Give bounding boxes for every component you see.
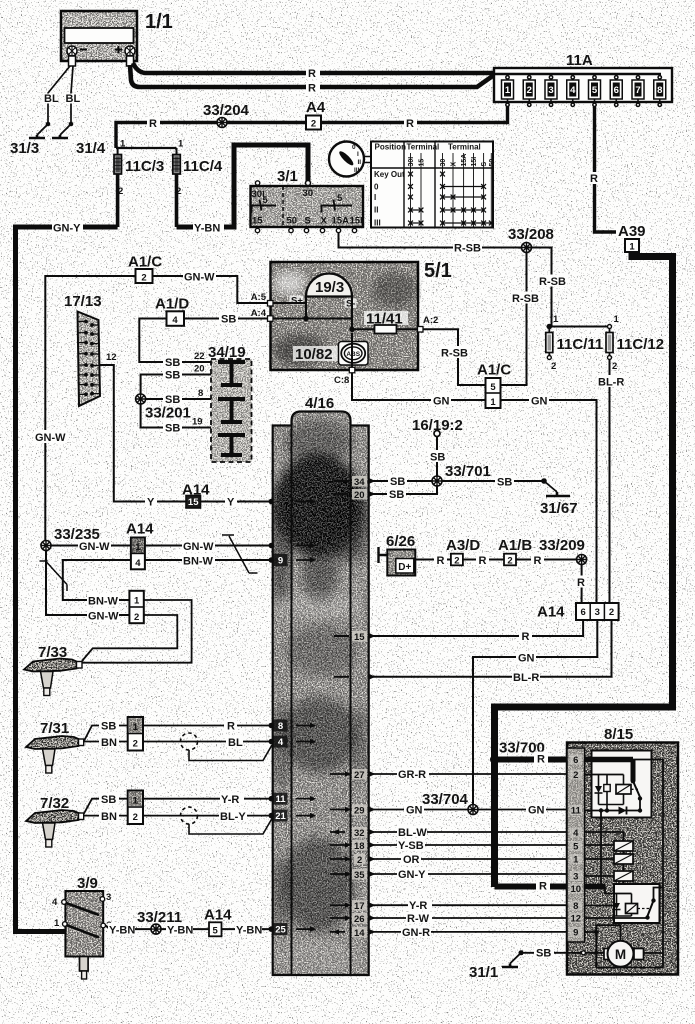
svg-text:S: S: [305, 216, 311, 227]
svg-text:10: 10: [571, 884, 582, 895]
svg-text:1: 1: [133, 796, 139, 807]
svg-text:II: II: [374, 206, 378, 215]
svg-text:12: 12: [106, 352, 117, 363]
svg-text:11A: 11A: [566, 52, 593, 69]
svg-text:7: 7: [635, 85, 640, 96]
8/15 relay 1: [585, 751, 652, 818]
svg-text:1: 1: [134, 596, 140, 607]
svg-text:15: 15: [252, 216, 263, 227]
wire GN-W A1/C2 to A:5: [153, 276, 268, 303]
svg-text:31/67: 31/67: [540, 500, 578, 517]
svg-text:2: 2: [612, 361, 617, 372]
svg-text:20: 20: [194, 364, 205, 375]
svg-text:5: 5: [573, 842, 579, 853]
svg-text:A1/C: A1/C: [128, 254, 162, 271]
svg-text:SB: SB: [536, 948, 551, 960]
svg-text:8: 8: [657, 85, 662, 96]
wire BN 7/32: [84, 815, 128, 817]
svg-text:4/16: 4/16: [305, 395, 334, 412]
svg-text:19/3: 19/3: [315, 279, 344, 296]
svg-text:34: 34: [354, 477, 365, 488]
svg-text:15: 15: [419, 159, 426, 167]
wire BL battery negative to 31/3: [48, 66, 70, 124]
fuse 11C/3: [114, 139, 177, 228]
wheel sensor 7/33: [24, 644, 82, 696]
svg-text:A3/D: A3/D: [446, 537, 480, 554]
pin C:8: [351, 333, 353, 370]
connector A14 pins 6 3 2: [537, 603, 619, 621]
svg-text:GN-W: GN-W: [183, 541, 214, 553]
svg-text:R: R: [227, 721, 235, 733]
svg-text:BL: BL: [66, 93, 81, 105]
svg-text:BL-R: BL-R: [513, 672, 539, 684]
svg-text:30I: 30I: [408, 157, 415, 167]
svg-text:GR-R: GR-R: [398, 769, 426, 781]
control module 4/16: [270, 395, 372, 978]
svg-text:15A: 15A: [332, 216, 350, 227]
svg-text:Key Out: Key Out: [374, 170, 405, 179]
svg-text:11: 11: [571, 806, 582, 817]
svg-text:Y: Y: [227, 497, 235, 509]
svg-text:R: R: [149, 118, 157, 130]
wire GN-R pin 14: [371, 931, 567, 933]
svg-text:GN-Y: GN-Y: [398, 869, 426, 881]
wire BL-R 11C/12 down to A14: [609, 360, 611, 604]
wire BN 7/31: [84, 741, 128, 743]
svg-text:Y-BN: Y-BN: [236, 924, 262, 936]
svg-text:22: 22: [194, 351, 205, 362]
svg-text:1: 1: [120, 139, 126, 150]
wire BN-W A14 cell4 to 7/33 connector: [63, 560, 131, 600]
wire R-SB A:2 to A1/C pin 5: [423, 329, 486, 385]
svg-text:BN: BN: [101, 811, 117, 823]
svg-text:SB: SB: [165, 394, 180, 406]
4/16 pin 20 wire SB: [371, 487, 437, 495]
splice 33/701: [432, 476, 442, 486]
wire SB 34/19 pin 20 chain: [141, 375, 211, 428]
wire R fuse1 to 33/204 and fuses 11C: [116, 107, 508, 149]
svg-text:15I: 15I: [350, 216, 363, 227]
svg-text:GN: GN: [531, 396, 548, 408]
pin A:4: [273, 318, 307, 320]
thick wire R 33/700 to pin 6 of 8/15: [495, 757, 568, 763]
svg-text:6: 6: [580, 607, 585, 618]
svg-text:R: R: [479, 555, 487, 567]
svg-text:15: 15: [188, 497, 199, 508]
svg-text:2: 2: [527, 85, 532, 96]
svg-text:Y-R: Y-R: [409, 900, 427, 912]
wire SB 34/19 pin 19 label: [163, 421, 182, 433]
abs unit 10/82: [293, 342, 368, 366]
svg-text:R: R: [539, 881, 547, 893]
svg-text:11C/11: 11C/11: [557, 336, 604, 353]
svg-text:4: 4: [570, 85, 576, 96]
svg-text:3/1: 3/1: [277, 168, 298, 185]
svg-text:27: 27: [354, 770, 365, 781]
wire Y-BN 3/9 to 33/211: [106, 926, 157, 930]
connector A1/C pins 5 1: [477, 362, 511, 409]
wire R-SB splice down to A1/C pin 5: [501, 253, 527, 386]
wire BL-R A14 cell2 to 4/16: [371, 620, 612, 677]
8/15 motor: [596, 925, 663, 967]
ignition key symbol: [329, 142, 371, 177]
wire Y-BN to ignition 30: [177, 145, 309, 227]
svg-text:20: 20: [354, 490, 365, 501]
svg-text:4: 4: [573, 828, 579, 839]
svg-text:BN-W: BN-W: [183, 556, 214, 568]
8/15 pin 12 wire: [585, 917, 648, 919]
svg-text:33/704: 33/704: [422, 791, 469, 808]
svg-text:15I: 15I: [471, 157, 478, 167]
svg-text:14: 14: [354, 928, 365, 939]
wire Y-BN 33/211 to A14: [161, 928, 209, 930]
pin A:5: [273, 302, 307, 304]
splice 33/204: [217, 118, 227, 128]
svg-text:A4: A4: [306, 99, 326, 116]
svg-text:9: 9: [278, 556, 283, 567]
wire R fuse5 to A39: [595, 107, 633, 240]
svg-text:Terminal: Terminal: [407, 143, 440, 152]
wheel sensor 7/32: [26, 795, 84, 847]
svg-text:Y-R: Y-R: [221, 794, 239, 806]
wire R-SB from 15A to splice 33/208: [339, 233, 527, 248]
8/15 resistor chain: [585, 832, 633, 894]
connector 7/31 pins 1 2: [128, 717, 143, 751]
wheel sensor 7/33 connector box: [129, 591, 143, 623]
svg-text:31/4: 31/4: [76, 140, 106, 157]
svg-text:GN-R: GN-R: [402, 927, 430, 939]
svg-text:R: R: [308, 68, 316, 80]
wire Y A14 to 4/16: [201, 501, 272, 503]
wire GN-W A14 to 4/16: [145, 545, 271, 547]
svg-text:5: 5: [213, 926, 219, 937]
svg-text:R-SB: R-SB: [454, 243, 481, 255]
svg-text:11C/3: 11C/3: [125, 158, 164, 175]
svg-text:Y-BN: Y-BN: [167, 924, 193, 936]
svg-text:8: 8: [573, 901, 578, 912]
svg-text:2: 2: [357, 855, 362, 866]
ground 31/4: [52, 124, 71, 138]
resistor 11/41: [349, 311, 418, 334]
svg-text:GN: GN: [406, 805, 423, 817]
8/15 relay 2: [585, 884, 663, 923]
svg-text:BL-Y: BL-Y: [220, 811, 246, 823]
wire SB 7/32: [84, 799, 128, 814]
svg-text:15: 15: [354, 632, 365, 643]
svg-text:GN-W: GN-W: [184, 272, 215, 284]
svg-text:1: 1: [614, 314, 620, 325]
wire GN pin 29 via 33/704: [371, 809, 567, 811]
wire R 6/26 to 33/209: [415, 559, 581, 561]
wire GN A1/C to A14 cell 3: [501, 400, 597, 603]
fuses 11A 1-8: [502, 74, 666, 107]
thick wire R from A39 down right edge to 33/700: [495, 252, 673, 887]
svg-text:A:4: A:4: [251, 308, 267, 319]
svg-text:I: I: [357, 151, 359, 158]
8/15 pin strip: [567, 748, 585, 942]
wire Y-BN A14 to 4/16 pin 25: [222, 928, 272, 930]
svg-text:1: 1: [573, 855, 579, 866]
wire GN A14 cell3 down to 33/704: [473, 620, 597, 810]
svg-text:5: 5: [337, 193, 343, 204]
wire GN-W A1/C2 down to 33/235: [45, 276, 135, 546]
svg-text:R: R: [537, 754, 545, 766]
svg-text:9: 9: [573, 928, 578, 939]
svg-text:17: 17: [354, 901, 365, 912]
wire OR pin 2: [371, 858, 567, 860]
svg-text:Terminal: Terminal: [448, 143, 481, 152]
svg-text:A:2: A:2: [423, 315, 438, 326]
pin A:2: [418, 327, 424, 333]
svg-text:Y: Y: [147, 497, 155, 509]
wire 7/33 connector cell2 loop: [82, 615, 177, 661]
svg-text:3: 3: [595, 607, 600, 618]
fuse 11C/4: [173, 139, 223, 228]
wire GR-R pin 27: [371, 773, 567, 775]
svg-text:4: 4: [278, 737, 284, 748]
svg-text:M: M: [615, 947, 626, 962]
svg-text:BN: BN: [101, 737, 117, 749]
svg-text:5/1: 5/1: [424, 260, 452, 282]
svg-text:BN-W: BN-W: [88, 596, 119, 608]
svg-text:X: X: [451, 162, 458, 167]
svg-text:OR: OR: [403, 854, 420, 866]
wire SB 34/19 pin 8: [146, 398, 211, 400]
wire BL battery negative to 31/4: [71, 66, 73, 124]
wire R 33/209 down to A14 cell 6: [581, 565, 583, 604]
wire BN-W A14 cell4 to 4/16 pin 9: [145, 559, 271, 561]
svg-text:III: III: [374, 219, 381, 228]
svg-text:30: 30: [303, 188, 314, 199]
wheel sensor 7/31: [26, 720, 84, 773]
8/15 pin 11 wire with diode: [585, 810, 640, 812]
connector A14 pins 1 4: [126, 521, 154, 570]
svg-text:SB: SB: [101, 721, 116, 733]
svg-text:SB: SB: [390, 476, 405, 488]
svg-text:31/1: 31/1: [469, 964, 498, 981]
svg-text:3: 3: [573, 872, 578, 883]
svg-text:SB: SB: [165, 370, 180, 382]
svg-text:II: II: [358, 159, 362, 166]
svg-text:33/208: 33/208: [508, 226, 554, 243]
splice 33/201: [136, 394, 146, 404]
svg-text:1/1: 1/1: [145, 11, 173, 33]
svg-text:5: 5: [592, 85, 598, 96]
svg-text:R: R: [437, 555, 445, 567]
ignition switch 3/1: [251, 168, 364, 233]
svg-text:GN: GN: [433, 396, 450, 408]
svg-text:1: 1: [135, 542, 141, 553]
svg-text:R: R: [522, 631, 530, 643]
svg-text:3: 3: [548, 85, 553, 96]
wire R-SB splice to 11C/11: [527, 248, 552, 327]
wire GN-W 33/235 down to 7/33 connector: [46, 551, 129, 616]
wire R 7/31 to 4/16 pin 8: [143, 725, 271, 727]
svg-text:A:5: A:5: [251, 292, 267, 303]
svg-text:2: 2: [551, 361, 556, 372]
svg-text:D+: D+: [398, 562, 411, 573]
svg-text:R-SB: R-SB: [441, 348, 468, 360]
svg-text:2: 2: [454, 556, 459, 567]
splice 33/208: [522, 243, 532, 253]
wire R-W pin 26: [371, 917, 567, 919]
svg-text:1: 1: [505, 85, 511, 96]
svg-text:0: 0: [374, 183, 379, 192]
wire R A14 cell6 to 4/16 pin 15: [371, 620, 583, 636]
svg-text:4: 4: [52, 897, 58, 908]
internal wiring 5/1: [306, 297, 352, 330]
thick wire R 33/700 to pin 10 of 8/15: [495, 884, 568, 890]
svg-text:21: 21: [275, 811, 286, 822]
svg-text:A39: A39: [618, 223, 646, 240]
svg-text:35: 35: [354, 870, 365, 881]
svg-text:C:8: C:8: [334, 375, 349, 386]
alternator 6/26: [379, 533, 416, 576]
svg-text:5: 5: [490, 382, 496, 393]
svg-text:A1/D: A1/D: [155, 296, 189, 313]
svg-text:7/31: 7/31: [40, 720, 69, 737]
connector A39 pin 1: [616, 224, 649, 238]
wire SB 7/31: [84, 726, 128, 742]
svg-text:R: R: [577, 577, 585, 589]
wire Y 17/13 pin 12 to A14: [100, 365, 186, 502]
svg-text:GN: GN: [518, 653, 535, 665]
svg-text:BL-W: BL-W: [398, 827, 427, 839]
wire R battery positive bottom: [130, 65, 494, 87]
ground 31/67: [541, 478, 547, 484]
4/16 pin 34 wire SB to 31/67: [334, 480, 544, 482]
svg-text:2: 2: [573, 770, 578, 781]
ground 31/3: [29, 124, 48, 138]
svg-text:1: 1: [490, 397, 496, 408]
svg-text:8: 8: [198, 388, 203, 399]
svg-text:30: 30: [440, 159, 447, 167]
svg-text:2: 2: [133, 739, 138, 750]
svg-text:Position: Position: [375, 143, 407, 152]
svg-text:R-W: R-W: [407, 913, 430, 925]
svg-text:A14: A14: [126, 521, 154, 538]
svg-text:S+: S+: [291, 296, 303, 307]
wire SB A1/D to A:4: [184, 318, 268, 320]
resistor pack 34/19: [208, 344, 252, 462]
svg-text:1: 1: [553, 314, 559, 325]
svg-text:GN-Y: GN-Y: [53, 223, 81, 235]
wire BL-W pin 32: [371, 831, 567, 833]
wire 7/33 connector cell1 loop: [82, 600, 192, 663]
svg-text:BL: BL: [228, 737, 243, 749]
connector 17/13: [64, 293, 117, 406]
svg-text:6: 6: [614, 85, 619, 96]
svg-text:10/82: 10/82: [295, 346, 333, 363]
hydraulic modulator 8/15: [567, 726, 678, 975]
svg-text:R: R: [406, 118, 414, 130]
ignition position table: [371, 142, 496, 228]
svg-text:SB: SB: [430, 452, 445, 464]
svg-text:11C/4: 11C/4: [183, 158, 223, 175]
svg-text:4: 4: [135, 558, 141, 569]
svg-text:1: 1: [178, 139, 184, 150]
wire Y-R 7/32 to 4/16 pin 11: [143, 798, 271, 800]
wire Y-SB pin 18: [371, 844, 567, 846]
svg-text:5: 5: [263, 195, 269, 206]
4/16 internal pin arrows: [296, 481, 348, 932]
svg-text:A1/C: A1/C: [477, 362, 511, 379]
svg-text:25: 25: [275, 925, 286, 936]
svg-text:A14: A14: [204, 907, 232, 924]
sensor reference 19/3: [290, 274, 357, 310]
svg-text:GN-W: GN-W: [88, 611, 119, 623]
wire GN C:8 to A1/C pin 1: [352, 373, 486, 400]
wire R battery positive top: [133, 63, 494, 73]
svg-text:1: 1: [133, 722, 139, 733]
svg-text:2: 2: [134, 612, 139, 623]
svg-text:1: 1: [629, 242, 635, 253]
svg-text:11C/12: 11C/12: [617, 336, 665, 353]
svg-text:6: 6: [573, 755, 578, 766]
splice 33/209: [577, 555, 587, 565]
svg-text:Y-BN: Y-BN: [109, 924, 135, 936]
battery 1/1: [61, 11, 173, 66]
svg-text:33/701: 33/701: [445, 463, 491, 480]
svg-text:18: 18: [354, 841, 365, 852]
wire SB to motor from 31/1: [581, 951, 585, 955]
fuse 11C/12: [606, 314, 664, 372]
svg-text:3/9: 3/9: [77, 875, 98, 892]
svg-text:SB: SB: [221, 314, 236, 326]
control module 5/1: [271, 260, 452, 370]
svg-text:R: R: [308, 83, 316, 95]
svg-text:GN-W: GN-W: [35, 432, 66, 444]
svg-text:SB: SB: [497, 477, 512, 489]
svg-text:GN: GN: [528, 805, 545, 817]
svg-text:2: 2: [507, 556, 512, 567]
svg-text:8/15: 8/15: [604, 726, 633, 743]
splice 33/235: [41, 541, 51, 551]
svg-text:32: 32: [354, 828, 365, 839]
svg-text:III: III: [354, 167, 360, 174]
svg-text:R-SB: R-SB: [512, 293, 539, 305]
svg-text:17/13: 17/13: [64, 293, 102, 310]
8/15 feed wire right side: [633, 760, 663, 968]
svg-text:S-: S-: [346, 299, 356, 310]
svg-text:33/201: 33/201: [145, 405, 191, 422]
svg-text:R: R: [534, 555, 542, 567]
svg-text:A14: A14: [537, 604, 565, 621]
wire GN-W 33/235 to A14: [51, 545, 131, 547]
svg-text:S: S: [481, 162, 488, 167]
svg-text:SB: SB: [165, 357, 180, 369]
switch 3/9: [52, 875, 112, 979]
splice 33/704: [468, 805, 478, 815]
svg-text:GN-W: GN-W: [79, 541, 110, 553]
fuse 11C/11: [546, 314, 610, 372]
svg-text:ABS: ABS: [346, 351, 360, 358]
svg-text:SB: SB: [165, 423, 180, 435]
svg-text:31/3: 31/3: [10, 140, 39, 157]
svg-text:SB: SB: [101, 794, 116, 806]
connector 7/32 pins 1 2: [128, 791, 143, 825]
variant slash near 4/16: [222, 535, 258, 573]
8/15 pin 9 wire: [585, 931, 597, 933]
svg-text:50: 50: [287, 216, 298, 227]
wire Y-R pin 17: [371, 904, 567, 906]
svg-text:19: 19: [192, 417, 203, 428]
svg-text:R: R: [590, 173, 598, 185]
svg-text:2: 2: [311, 119, 316, 130]
wire GN-Y pin 35: [371, 873, 567, 875]
svg-text:Y-SB: Y-SB: [398, 840, 424, 852]
svg-text:2: 2: [141, 273, 146, 284]
